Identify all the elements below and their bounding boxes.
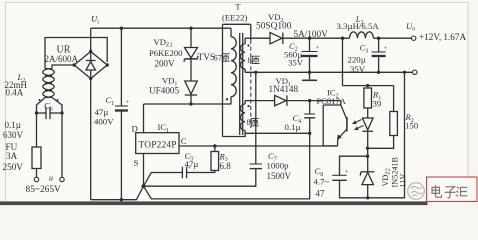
svg-text:35V: 35V	[288, 58, 304, 68]
svg-text:+: +	[316, 45, 320, 52]
svg-text:+: +	[126, 99, 130, 106]
svg-text:220µ: 220µ	[348, 55, 366, 65]
svg-text:150: 150	[405, 121, 419, 131]
svg-text:T: T	[235, 2, 241, 12]
svg-text:39: 39	[373, 99, 382, 109]
svg-text:D: D	[132, 124, 138, 134]
svg-text:8: 8	[248, 56, 252, 65]
svg-text:1500V: 1500V	[267, 171, 292, 181]
svg-text:C: C	[181, 136, 187, 146]
svg-text:630V: 630V	[3, 130, 24, 140]
svg-text:S: S	[134, 158, 139, 168]
svg-text:+: +	[384, 45, 388, 52]
svg-text:u: u	[49, 174, 53, 183]
svg-text:0.1µ: 0.1µ	[285, 122, 301, 132]
svg-text:6.8: 6.8	[220, 161, 232, 171]
svg-text:2A/600A: 2A/600A	[45, 54, 79, 64]
svg-text:400V: 400V	[94, 116, 114, 126]
svg-text:1000p: 1000p	[267, 161, 290, 171]
svg-text:PC817A: PC817A	[317, 96, 347, 106]
svg-text:(EE22): (EE22)	[222, 13, 247, 23]
svg-text:200V: 200V	[155, 58, 176, 68]
svg-text:47: 47	[316, 188, 326, 198]
svg-text:67: 67	[214, 54, 222, 63]
svg-text:+12V, 1.67A: +12V, 1.67A	[419, 32, 466, 42]
svg-text:P6KE200: P6KE200	[149, 48, 182, 58]
svg-text:UF4005: UF4005	[149, 85, 180, 95]
svg-text:3A: 3A	[6, 151, 18, 161]
svg-text:3.3µH/6.5A: 3.3µH/6.5A	[337, 21, 380, 31]
svg-text:5A/100V: 5A/100V	[294, 29, 329, 39]
svg-text:1N4148: 1N4148	[269, 84, 299, 94]
svg-text:4.7~: 4.7~	[314, 177, 330, 187]
svg-text:35V: 35V	[350, 64, 366, 74]
svg-text:250V: 250V	[3, 162, 24, 172]
svg-text:47µ: 47µ	[95, 107, 109, 117]
svg-text:50SQ100: 50SQ100	[256, 22, 292, 32]
svg-text:11V: 11V	[399, 174, 408, 188]
svg-text:TOP224P: TOP224P	[139, 140, 177, 150]
svg-text:8: 8	[247, 118, 251, 127]
svg-text:0.4A: 0.4A	[6, 87, 24, 97]
svg-text:85~265V: 85~265V	[26, 185, 62, 195]
svg-text:0.1µ: 0.1µ	[5, 120, 21, 130]
svg-text:47µ: 47µ	[185, 159, 199, 169]
svg-text:+: +	[345, 169, 349, 176]
